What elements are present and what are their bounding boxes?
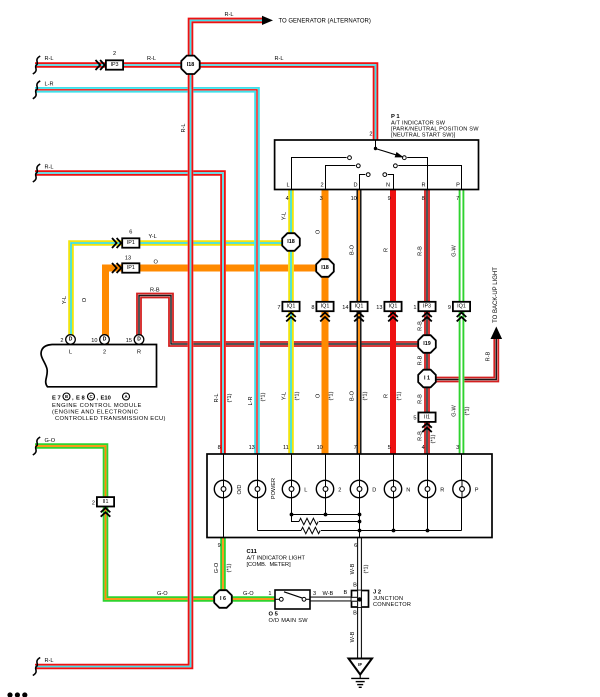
break mark R-L bottom [33,658,40,676]
connector 13 IQ1 on R wire [384,302,401,311]
svg-text:6: 6 [129,230,132,236]
svg-text:6: 6 [354,543,357,549]
svg-text:L: L [304,487,307,493]
svg-text:2: 2 [103,350,106,356]
svg-text:E10: E10 [101,396,111,402]
svg-text:(*1): (*1) [465,406,471,415]
svg-text:9: 9 [218,543,221,549]
svg-text:O/D: O/D [237,485,243,495]
C11 internal wiring [224,454,462,538]
svg-text:R-L: R-L [45,56,54,62]
svg-text:JUNCTION: JUNCTION [373,596,403,602]
svg-text:,: , [97,396,99,402]
O/D main switch O5 box [275,590,310,609]
svg-text:IP1: IP1 [127,265,135,271]
svg-text:G-W: G-W [452,245,458,257]
svg-text:W-B: W-B [350,563,356,574]
svg-text:IQ1: IQ1 [457,304,466,310]
svg-text:(*1): (*1) [364,564,370,573]
wire R-B from ECM terminal 15 to junction I19 [139,296,427,345]
junction connector I6 on G-O wire [214,590,232,608]
svg-text:N: N [406,487,410,493]
svg-text:13: 13 [376,305,382,311]
A/T indicator switch P1 box [275,140,479,190]
svg-text:R-L: R-L [275,56,284,62]
ECM terminal 10 D [100,335,110,345]
wire R column P1 terminal N to C11 terminal 5 [390,190,396,455]
svg-text:15: 15 [126,338,132,344]
svg-text:1: 1 [268,591,271,597]
svg-text:G-W: G-W [452,405,458,417]
svg-text:3: 3 [320,196,323,202]
svg-text:7: 7 [456,196,459,202]
svg-text:Y-L: Y-L [62,296,68,304]
svg-text:9: 9 [388,196,391,202]
connector 2 II1 on G-O wire [97,497,114,506]
svg-text:2: 2 [92,500,95,506]
svg-text:10: 10 [317,445,323,451]
svg-text:7: 7 [277,305,280,311]
svg-text:2: 2 [338,487,341,493]
svg-text:D: D [353,183,357,189]
svg-text:B: B [353,611,357,617]
svg-text:(*1): (*1) [328,391,334,400]
P1 switch internal contacts and risers [292,140,462,190]
svg-text:O: O [316,229,322,234]
svg-text:R-L: R-L [181,123,187,132]
svg-text:,: , [72,396,74,402]
svg-text:D: D [137,337,141,343]
svg-text:R-L: R-L [45,164,54,170]
svg-text:(*1): (*1) [261,392,267,401]
svg-text:R-L: R-L [147,56,156,62]
svg-text:R-B: R-B [418,355,424,365]
connector 7 IQ1 on Y-L wire [282,302,299,311]
svg-text:R: R [421,183,425,189]
svg-text:(*1): (*1) [227,393,233,402]
svg-text:O: O [82,297,88,302]
wire R-L long vertical from junction I18 to bottom-left break [35,54,191,667]
svg-text:8: 8 [311,305,314,311]
svg-text:II1: II1 [103,499,109,505]
connector 6 IP1 on Y-L wire [112,238,121,248]
svg-text:11: 11 [283,445,289,451]
arrow to generator (alternator) [262,16,273,25]
engine control module box [41,345,156,387]
svg-text:O: O [316,393,322,398]
wire R-L branch to generator [191,20,263,56]
svg-text:3: 3 [313,591,316,597]
connector 2 IP3 on top R-L wire [96,60,105,70]
svg-text:5: 5 [388,445,391,451]
svg-text:O/D MAIN SW: O/D MAIN SW [269,618,309,624]
svg-text:B: B [344,590,348,596]
svg-text:I 6: I 6 [220,596,226,602]
svg-text:L: L [286,183,289,189]
wire W-B from switch O5 to junction connector J2 [310,596,360,601]
svg-text:(*1): (*1) [396,391,402,400]
wire Y-L column P1 terminal L to C11 terminal 11 [288,190,294,455]
svg-text:I18: I18 [187,62,195,68]
wire R-L from left break down to C11 terminal 8 [35,173,223,454]
page corner dots [7,692,12,697]
svg-text:E 7: E 7 [52,396,61,402]
svg-text:IQ1: IQ1 [321,304,330,310]
svg-text:R-L: R-L [225,12,234,18]
svg-text:(ENGINE AND ELECTRONIC: (ENGINE AND ELECTRONIC [52,410,139,416]
break mark R-L middle [33,164,40,182]
svg-text:L-R: L-R [248,396,254,405]
svg-text:A/T INDICATOR SW: A/T INDICATOR SW [391,120,446,126]
svg-text:IP3: IP3 [110,62,118,68]
svg-text:[NEUTRAL START SW)]: [NEUTRAL START SW)] [391,133,456,139]
svg-text:C: C [89,394,92,399]
svg-text:L-R: L-R [45,81,54,87]
svg-text:4: 4 [422,445,425,451]
svg-text:9: 9 [448,305,451,311]
svg-text:D: D [103,337,107,343]
svg-text:TO GENERATOR (ALTERNATOR): TO GENERATOR (ALTERNATOR) [279,19,371,25]
svg-text:13: 13 [249,445,255,451]
svg-text:Y-L: Y-L [282,392,288,400]
svg-text:N: N [386,183,390,189]
svg-text:G-O: G-O [157,591,168,597]
wire R-B from junction I1 to back-up light branch [427,339,496,380]
svg-text:R-B: R-B [418,431,424,441]
wire B-O column P1 terminal D to C11 terminal 7 [356,190,361,455]
svg-text:R-L: R-L [214,393,220,402]
svg-text:I19: I19 [423,341,431,347]
svg-text:4: 4 [286,196,289,202]
svg-text:1: 1 [413,305,416,311]
svg-text:(*1): (*1) [362,391,368,400]
svg-text:IQ1: IQ1 [287,304,296,310]
junction connector I18 top [181,56,199,74]
svg-text:P: P [475,487,479,493]
svg-text:O 5: O 5 [269,612,279,618]
svg-text:ENGINE CONTROL MODULE: ENGINE CONTROL MODULE [52,403,142,409]
svg-text:I 1: I 1 [424,376,430,382]
svg-text:7: 7 [354,445,357,451]
svg-text:D: D [69,337,73,343]
svg-text:IF: IF [358,662,362,667]
svg-text:P 1: P 1 [391,114,400,120]
connector 14 IQ1 on B-O wire [350,302,367,311]
wire W-B C11 terminal 6 to junction connector J2 and ground [357,538,362,660]
break mark L-R [33,81,40,99]
wire R-B column P1 terminal R to C11 terminal 4 [424,190,430,455]
svg-text:10: 10 [351,196,357,202]
svg-text:R-B: R-B [486,351,492,361]
svg-text:R: R [384,248,390,252]
svg-text:II1: II1 [424,414,430,420]
svg-text:10: 10 [91,338,97,344]
svg-text:[COMB. METER]: [COMB. METER] [247,562,292,568]
svg-text:POWER: POWER [271,478,277,499]
svg-text:(*1): (*1) [431,434,437,443]
svg-text:B: B [65,394,68,399]
svg-text:R-B: R-B [418,321,424,331]
svg-text:O: O [154,260,159,266]
svg-text:(*1): (*1) [294,391,300,400]
svg-text:I18: I18 [287,239,295,245]
svg-text:CONNECTOR: CONNECTOR [373,602,411,608]
svg-text:R-L: R-L [45,658,54,664]
svg-text:D: D [372,487,376,493]
break mark G-O [33,437,40,455]
svg-text:A/T INDICATOR LIGHT: A/T INDICATOR LIGHT [247,556,306,562]
wire O from ECM terminal 10 to junction I18 [106,268,326,345]
svg-text:B-O: B-O [350,244,356,255]
svg-text:Y-L: Y-L [149,234,157,240]
svg-text:13: 13 [125,255,131,261]
junction connector I19 on R-B wire [418,335,436,353]
svg-text:TO BACK-UP LIGHT: TO BACK-UP LIGHT [493,267,499,323]
svg-text:CONTROLLED TRANSMISSION ECU): CONTROLLED TRANSMISSION ECU) [55,416,166,422]
svg-text:R-B: R-B [418,394,424,404]
svg-text:IQ1: IQ1 [355,304,364,310]
svg-text:2: 2 [60,338,63,344]
svg-text:C11: C11 [247,549,258,555]
wire Y-L from ECM terminal 2 to junction I18 [71,243,291,345]
arrow to back-up light [491,327,503,340]
svg-text:B: B [353,582,357,588]
svg-text:IP3: IP3 [423,304,431,310]
wire O column P1 terminal 2 to C11 terminal 10 [322,190,329,455]
svg-text:W-B: W-B [323,591,334,597]
svg-text:IQ1: IQ1 [389,304,398,310]
A/T indicator light C11 box [207,454,492,538]
connector 9 IQ1 on G-W wire [453,302,470,311]
svg-text:L: L [69,350,72,356]
connector 1 IP3 on R-B wire [418,302,435,311]
svg-text:IP1: IP1 [127,240,135,246]
svg-text:I18: I18 [321,265,329,271]
svg-text:R: R [384,394,390,398]
svg-text:P: P [456,183,460,189]
svg-text:5: 5 [413,416,416,422]
svg-text:B-O: B-O [350,390,356,401]
svg-text:3: 3 [456,445,459,451]
junction connector J2 box [352,591,369,608]
junction connector I1 on R-B wire [418,370,436,388]
junction connector I18 on O wire [316,259,334,277]
svg-text:(*1): (*1) [226,563,232,572]
connector 13 IP1 on O wire [112,263,121,273]
connector 8 IQ1 on O wire [316,302,333,311]
svg-text:R: R [440,487,444,493]
svg-text:G-O: G-O [45,438,56,444]
svg-text:A: A [124,394,127,399]
wire R-L top row from left break through IP3 to P1 terminal 2 [35,65,376,140]
svg-text:14: 14 [342,305,348,311]
svg-text:2: 2 [320,183,323,189]
C11 indicator lamps [214,480,231,497]
svg-text:R: R [137,350,141,356]
svg-text:8: 8 [422,196,425,202]
svg-text:2: 2 [113,51,116,57]
ECM terminal 15 D [134,335,144,345]
wire G-W column P1 terminal P to C11 terminal 3 [459,190,465,455]
svg-text:J 2: J 2 [373,589,381,595]
wire G-O C11 terminal 9 to junction I6 [220,538,226,600]
svg-text:R-B: R-B [418,246,424,256]
break mark R-L top [33,56,40,74]
svg-text:G-O: G-O [243,591,254,597]
svg-text:R-B: R-B [150,287,160,293]
junction connector I18 on Y-L wire [282,233,300,251]
connector 5 II1 on R-B wire [418,413,435,422]
wire L-R from left break down to C11 terminal 13 [35,90,257,454]
P1 switch arm [374,147,377,150]
svg-text:2: 2 [369,132,372,138]
svg-text:Y-L: Y-L [282,212,288,220]
svg-text:G-O: G-O [214,562,220,573]
wire G-O from left break to O/D main switch O5 [35,446,275,599]
svg-text:E 8: E 8 [76,396,85,402]
svg-text:W-B: W-B [350,631,356,642]
ECM terminal 2 D [66,335,76,345]
svg-text:8: 8 [218,445,221,451]
ground point IF [349,659,373,675]
